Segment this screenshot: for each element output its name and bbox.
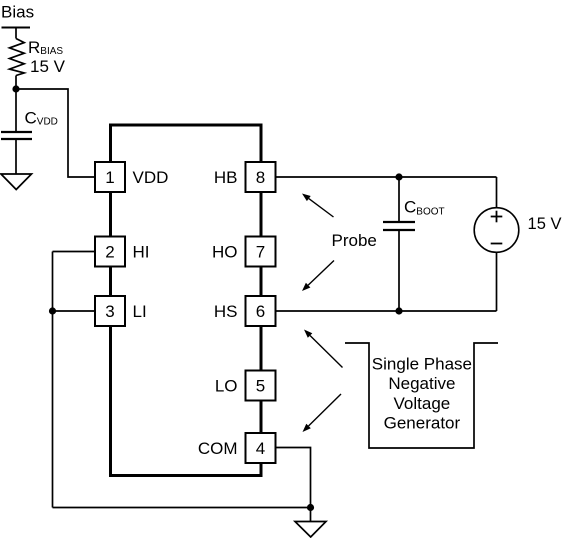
svg-text:3: 3 xyxy=(105,302,114,321)
wire HB net pin 8 to source xyxy=(276,176,497,178)
pin 3 LI xyxy=(95,296,147,326)
wire left vertical HI/LI to bottom xyxy=(52,252,54,508)
wire bottom horizontal to ground node xyxy=(53,507,311,509)
svg-text:5: 5 xyxy=(256,377,265,396)
wire pin 2 stub xyxy=(53,251,96,253)
pin 6 HS xyxy=(214,296,276,326)
svg-text:8: 8 xyxy=(256,168,265,187)
pin 7 HO xyxy=(212,237,276,267)
svg-text:7: 7 xyxy=(256,243,265,262)
wire pin 4 COM stub xyxy=(276,448,311,522)
svg-text:VDD: VDD xyxy=(133,168,169,187)
svg-text:Bias: Bias xyxy=(1,3,34,22)
svg-text:HB: HB xyxy=(214,168,238,187)
svg-text:Voltage: Voltage xyxy=(394,394,451,413)
wire source - to HS xyxy=(496,252,498,311)
probe arrow to pin 6 xyxy=(302,261,334,292)
wire pin 3 stub xyxy=(53,310,96,312)
probe arrow to pin 8 xyxy=(302,194,334,218)
svg-text:LI: LI xyxy=(133,302,147,321)
svg-text:COM: COM xyxy=(198,439,238,458)
svg-text:15 V: 15 V xyxy=(528,215,562,233)
svg-text:RBIAS: RBIAS xyxy=(28,38,63,57)
svg-text:HO: HO xyxy=(212,243,238,262)
node ground junction dot xyxy=(307,504,314,511)
svg-text:4: 4 xyxy=(256,439,265,458)
op-amp U1 IC body xyxy=(111,125,262,476)
svg-text:Generator: Generator xyxy=(384,414,461,433)
svg-text:Probe: Probe xyxy=(332,231,377,250)
ground (COM) xyxy=(295,522,326,538)
svg-text:CBOOT: CBOOT xyxy=(404,198,445,218)
node HB junction dot xyxy=(395,173,402,180)
node VDD junction dot xyxy=(12,85,19,92)
generator arrow to pin 6 xyxy=(304,330,343,368)
svg-text:2: 2 xyxy=(105,243,114,262)
label Single Phase Negative Voltage Generator xyxy=(372,355,472,433)
generator bracket outline xyxy=(345,343,498,448)
svg-text:Negative: Negative xyxy=(388,374,455,393)
pin 2 HI xyxy=(95,237,150,267)
svg-text:1: 1 xyxy=(105,168,114,187)
wire HS net pin 6 to source xyxy=(276,310,497,312)
svg-text:CVDD: CVDD xyxy=(25,109,58,128)
capacitor CVDD xyxy=(1,132,32,139)
pin 4 COM xyxy=(198,433,276,463)
ground (CVDD) xyxy=(1,174,32,190)
wire Bias terminal to resistor xyxy=(15,28,17,39)
node HS junction dot xyxy=(395,307,402,314)
pin 1 VDD xyxy=(95,162,168,192)
wire HB to source + xyxy=(496,177,498,208)
svg-text:Single Phase: Single Phase xyxy=(372,355,472,374)
generator arrow to pin 4 xyxy=(303,394,342,432)
svg-text:6: 6 xyxy=(256,302,265,321)
svg-text:HS: HS xyxy=(214,302,238,321)
svg-text:15 V: 15 V xyxy=(30,57,66,76)
resistor RBIAS xyxy=(10,39,25,76)
svg-text:HI: HI xyxy=(133,243,150,262)
terminal bar Bias xyxy=(2,27,31,29)
wire resistor to VDD node xyxy=(15,76,17,133)
wire CBOOT to HS node xyxy=(398,230,400,311)
pin 5 LO xyxy=(215,371,276,401)
svg-text:LO: LO xyxy=(215,377,238,396)
wire CVDD to ground xyxy=(15,139,17,174)
pin 8 HB xyxy=(214,162,276,192)
voltage source V1 15 V xyxy=(474,208,519,253)
wire HB node to CBOOT xyxy=(398,177,400,222)
node LI junction dot xyxy=(49,307,56,314)
wire VDD node to pin 1 xyxy=(16,89,96,177)
capacitor CBOOT xyxy=(383,222,415,230)
